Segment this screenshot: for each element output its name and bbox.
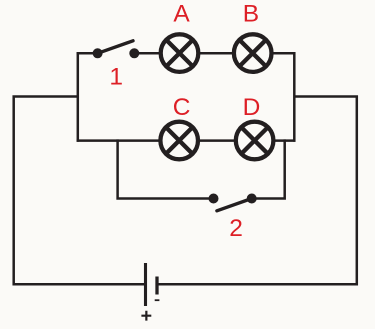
lamp D: [236, 122, 274, 160]
wire outer left loop: [14, 97, 145, 285]
battery + sign: [141, 311, 151, 321]
wire left box vertical: [77, 52, 80, 142]
wire D to right corner: [275, 139, 296, 142]
wire lamp B to right corner: [273, 52, 295, 55]
wire outer right loop: [158, 97, 356, 285]
lamp B: [234, 34, 272, 72]
wire lamp A to lamp B: [200, 52, 232, 55]
svg-text:C: C: [173, 94, 191, 121]
wire switch-2 loop left: [118, 139, 214, 198]
wire C-D branch left: [77, 139, 159, 142]
svg-text:2: 2: [229, 215, 243, 242]
svg-text:D: D: [243, 94, 261, 121]
wire top branch: corner to switch 1: [77, 52, 94, 55]
lamp A: [161, 34, 199, 72]
svg-text:1: 1: [109, 64, 123, 91]
svg-text:A: A: [173, 1, 190, 28]
battery - sign: [155, 299, 160, 301]
wire C to D: [200, 139, 235, 142]
battery short plate (-): [155, 277, 158, 295]
wire switch-2 loop right: [252, 139, 285, 198]
lamp C: [160, 122, 198, 160]
switch 2: [209, 194, 257, 211]
switch 1: [93, 41, 140, 59]
wire switch 1 to lamp A: [134, 52, 159, 55]
wire right box vertical: [293, 52, 296, 142]
svg-text:B: B: [243, 1, 259, 28]
battery long plate (+): [144, 263, 147, 306]
